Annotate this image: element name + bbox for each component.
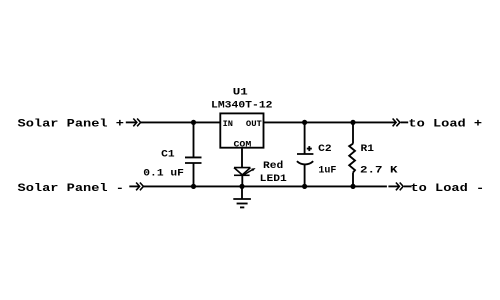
connector arrow output to Load + xyxy=(393,119,409,127)
node junction dot R1 top xyxy=(350,120,355,125)
label 2.7 K xyxy=(360,166,398,177)
label Red xyxy=(263,160,283,172)
plus polarity mark C2 xyxy=(307,146,312,151)
pin IN xyxy=(223,119,233,129)
svg-text:C2: C2 xyxy=(318,144,332,155)
label R1 xyxy=(361,144,375,155)
wire top rail to U1 IN xyxy=(141,121,221,123)
resistor R1 xyxy=(349,122,355,186)
label 0.1 uF xyxy=(143,169,184,180)
wire bottom rail xyxy=(143,185,387,187)
label C1 xyxy=(161,150,175,161)
wire connector lead-in bottom right xyxy=(388,185,399,187)
label LED1 xyxy=(260,174,287,185)
wire U1 OUT to right xyxy=(264,121,396,123)
svg-text:C1: C1 xyxy=(161,150,175,161)
node Solar Panel - label xyxy=(18,183,125,195)
label LM340T-12 xyxy=(211,101,273,112)
svg-text:OUT: OUT xyxy=(246,119,262,129)
svg-text:0.1 uF: 0.1 uF xyxy=(143,169,184,180)
node junction dot C1 bottom xyxy=(191,184,196,189)
svg-text:R1: R1 xyxy=(361,144,375,155)
svg-text:Red: Red xyxy=(263,160,283,172)
node junction dot LED bottom xyxy=(239,184,244,189)
regulator U1 LM340T-12 box xyxy=(220,113,263,147)
svg-text:IN: IN xyxy=(223,119,233,129)
pin COM xyxy=(234,140,252,150)
capacitor C2 polarized xyxy=(297,122,314,186)
connector arrow input + xyxy=(126,119,141,127)
svg-text:LED1: LED1 xyxy=(260,174,287,185)
svg-text:to Load +: to Load + xyxy=(408,119,482,131)
label U1 xyxy=(233,87,248,98)
node to Load - label xyxy=(411,183,485,195)
LED LED1 symbol xyxy=(234,168,256,187)
svg-text:Solar Panel -: Solar Panel - xyxy=(18,183,125,195)
node junction dot C2 bottom xyxy=(302,184,307,189)
node Solar Panel + label xyxy=(18,119,125,131)
node to Load + label xyxy=(408,119,482,131)
label 1uF xyxy=(318,166,336,177)
connector arrow input - xyxy=(129,183,143,191)
svg-text:1uF: 1uF xyxy=(318,166,336,177)
node junction dot C2 top xyxy=(302,120,307,125)
capacitor C1 xyxy=(185,122,202,186)
label C2 xyxy=(318,144,332,155)
ground xyxy=(233,186,251,207)
svg-text:2.7 K: 2.7 K xyxy=(360,166,398,177)
node junction dot R1 bottom xyxy=(350,184,355,189)
svg-text:to Load -: to Load - xyxy=(411,183,485,195)
node A junction dot C1 top xyxy=(191,120,196,125)
svg-text:U1: U1 xyxy=(233,87,248,98)
wire U1 COM to LED xyxy=(241,148,243,168)
pin OUT xyxy=(246,119,262,129)
svg-text:LM340T-12: LM340T-12 xyxy=(211,101,273,112)
svg-text:Solar Panel +: Solar Panel + xyxy=(18,119,125,131)
connector arrow output to Load - xyxy=(396,183,412,191)
